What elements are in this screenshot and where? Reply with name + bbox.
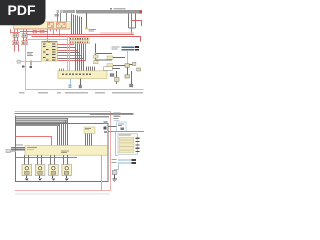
connector on blue input [6, 150, 10, 153]
relay block R/B [14, 22, 71, 29]
wire drops from title to relay block [58, 13, 67, 22]
wire red bus 1 [28, 34, 135, 36]
small connectors mid right col [107, 56, 113, 67]
connector strip row 1 [69, 38, 89, 40]
frame left tick above box [15, 116, 17, 124]
node dot on blue wire [30, 61, 32, 63]
red mark top right [140, 10, 143, 13]
connector strip row 2 [69, 41, 89, 44]
coil 3 [49, 155, 59, 181]
small dark marks below blue wire [22, 66, 32, 69]
wire red drop right [101, 155, 103, 190]
wire dark below component [127, 67, 129, 75]
pink frame page1 [26, 40, 144, 90]
connector small on blue wire [17, 60, 20, 63]
component on blue wire [125, 64, 129, 67]
ECU block [58, 71, 107, 79]
wire single drop with node [86, 13, 88, 28]
component 2 on wire [125, 75, 129, 78]
wire links [113, 58, 125, 66]
small component right of strip 2 [94, 61, 99, 64]
sub block pins [86, 134, 92, 146]
frame box page2 [16, 124, 109, 182]
legend top-right row 1 [110, 8, 126, 9]
gray note text mid-left [27, 52, 33, 56]
blue box content [118, 124, 124, 130]
input wires left [11, 148, 25, 151]
coil 2 [35, 155, 45, 181]
wire dark below ECU [80, 79, 82, 86]
wire branch right 1 [96, 53, 113, 55]
component right of ECU 2 [115, 78, 120, 82]
ECU pin labels [62, 73, 91, 75]
connector box B row1 col2 [22, 34, 28, 38]
title bar left [63, 10, 75, 13]
legend top-right row 2 [110, 10, 126, 11]
sub block text [85, 128, 91, 130]
wire red stubs below row2 [15, 45, 19, 52]
node dots [95, 53, 97, 55]
title bar small boxes [57, 10, 63, 13]
wire branch right 2 [96, 59, 113, 61]
connector box D row2 col2 [22, 41, 28, 45]
small gray box under title [55, 14, 60, 16]
component right of ECU 1 [110, 74, 114, 77]
small component right of strip 1 [94, 55, 99, 58]
capacitor blue [69, 85, 72, 88]
igniter text [27, 147, 69, 153]
input label [16, 144, 23, 147]
wire pink bus [100, 32, 134, 34]
wire red bus 2 [32, 36, 141, 41]
fuse symbol F1 [33, 30, 37, 33]
wire from relay box [113, 68, 121, 70]
relay 2 [57, 23, 67, 28]
caption page2 [15, 194, 110, 195]
wire blue input [7, 151, 17, 153]
wire right of ECU [116, 71, 118, 84]
svg-text:PDF: PDF [8, 2, 36, 18]
sensor below ECU [79, 85, 82, 88]
wire blue below ECU [70, 79, 72, 85]
wire pink vertical pair [68, 36, 70, 70]
igniter block [25, 146, 108, 156]
wire red table top [42, 41, 58, 43]
label stack right [114, 113, 121, 121]
coil 4 [62, 155, 72, 181]
wire blue sensor [115, 164, 119, 171]
wire red bottom border of relay block [14, 28, 71, 30]
connector box A row1 col1 [13, 34, 19, 38]
sub block top [84, 127, 95, 134]
relay box above ECU right [104, 67, 113, 71]
connector box C row2 col1 [13, 41, 19, 45]
small gray note text [89, 29, 97, 32]
sensor component [112, 171, 117, 175]
title text block page2 [16, 116, 109, 126]
PDF badge [0, 0, 46, 25]
wire bundle vertical center [72, 14, 82, 35]
fuse symbol F2 [40, 30, 44, 33]
ground symbol right [112, 179, 116, 182]
wire red top right [132, 13, 142, 34]
red ticks above ECU [60, 69, 64, 71]
tick below node [31, 62, 32, 65]
wire into blue box [108, 126, 117, 128]
relay 1 [48, 23, 54, 28]
wire drops top right [129, 13, 136, 28]
title bar long [76, 10, 142, 13]
small parts far right [129, 62, 140, 71]
wire blue vertical right [116, 132, 119, 156]
wire blue drop [127, 51, 129, 64]
wire blue horizontal [20, 61, 41, 63]
blue box [117, 122, 127, 132]
wire far right vertical [131, 71, 133, 84]
link wire below igniter [16, 157, 77, 159]
wire red bus top [15, 113, 134, 115]
wire dark under red bus [90, 114, 134, 116]
wire bundle page2 [58, 118, 68, 145]
small mark far right [130, 84, 133, 87]
legend rows bottom right [112, 159, 137, 164]
icon column [104, 121, 108, 133]
wires table to connector strip (dark) [58, 44, 84, 59]
node dot on table top [48, 41, 50, 43]
legend mid-right dash rows [122, 46, 139, 50]
junction block table [42, 43, 58, 62]
node junction dot [86, 27, 88, 29]
wires table to connector strip (red) [58, 44, 86, 61]
wires strip to ECU [76, 44, 84, 71]
wire to ground [114, 175, 116, 179]
wire red fuse row [20, 31, 48, 33]
wire red corner into igniter [16, 137, 52, 146]
wire red drops from relay block [11, 29, 60, 42]
coil 1 [22, 155, 32, 181]
ECU pin stubs [87, 67, 95, 71]
relay table [118, 134, 140, 154]
wire from strip down right [95, 44, 97, 61]
wire red between connector rows [15, 37, 27, 41]
wire from blue box right [108, 131, 145, 133]
legend mid-right text [112, 47, 120, 50]
caption page1 [19, 92, 143, 93]
pink frame page2 [15, 112, 111, 191]
